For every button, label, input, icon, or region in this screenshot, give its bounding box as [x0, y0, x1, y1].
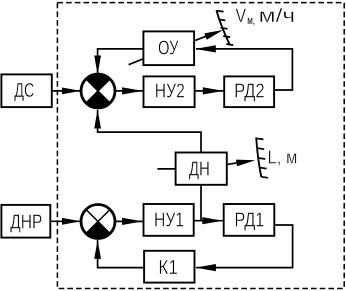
wire К1 to summing junction S2 bottom: [94, 240, 143, 268]
block ДН: [176, 153, 227, 185]
svg-text:V: V: [236, 5, 247, 27]
svg-text:НУ2: НУ2: [155, 81, 185, 103]
wire ОУ to speed indicator scale: [195, 30, 223, 41]
wire summing junction S2 to НУ1: [115, 218, 143, 225]
svg-text:К1: К1: [158, 257, 178, 279]
block РД2: [224, 76, 274, 107]
wire ДНР to summing junction S2: [51, 218, 81, 225]
svg-text:ДН: ДН: [189, 159, 210, 181]
svg-text:L, м: L, м: [268, 147, 298, 167]
setting stub on ДН: [157, 168, 175, 170]
block ОУ: [143, 31, 194, 65]
svg-text:ДС: ДС: [14, 80, 34, 102]
wire ДН to depth indicator scale: [228, 160, 256, 167]
svg-text:ОУ: ОУ: [158, 37, 179, 59]
block К1: [144, 251, 194, 283]
svg-text:м/ч: м/ч: [259, 5, 296, 27]
svg-text:м,: м,: [247, 15, 255, 27]
block ДС: [1, 74, 51, 107]
wire ОУ to summing junction S1 top: [94, 49, 142, 75]
wire НУ2 to РД2: [196, 87, 224, 94]
wire ДН bottom joining НУ1 output to РД1: [195, 186, 223, 225]
block РД1: [224, 204, 275, 236]
block НУ1: [144, 204, 194, 236]
label L, м: [268, 147, 298, 167]
block ДНР: [1, 205, 50, 238]
svg-text:РД1: РД1: [234, 209, 264, 231]
summing junction S1: [81, 74, 115, 108]
svg-text:РД2: РД2: [234, 81, 265, 103]
svg-text:ДНР: ДНР: [10, 211, 42, 233]
wire ДС to summing junction S1: [53, 88, 81, 95]
summing junction S2: [81, 205, 115, 239]
label Vм, м/ч: [236, 5, 296, 27]
wire РД1 feedback to К1: [195, 225, 292, 271]
block НУ2: [144, 76, 195, 107]
speed indicator scale symbol: [217, 10, 234, 45]
wire ДН top to summing junction S1 bottom: [94, 110, 201, 152]
wire РД2 feedback to ОУ: [195, 45, 292, 90]
svg-text:НУ1: НУ1: [154, 209, 184, 231]
wire summing junction S1 to НУ2: [115, 87, 143, 94]
depth indicator scale symbol: [256, 138, 268, 178]
adjustment stub on ОУ: [129, 59, 143, 65]
